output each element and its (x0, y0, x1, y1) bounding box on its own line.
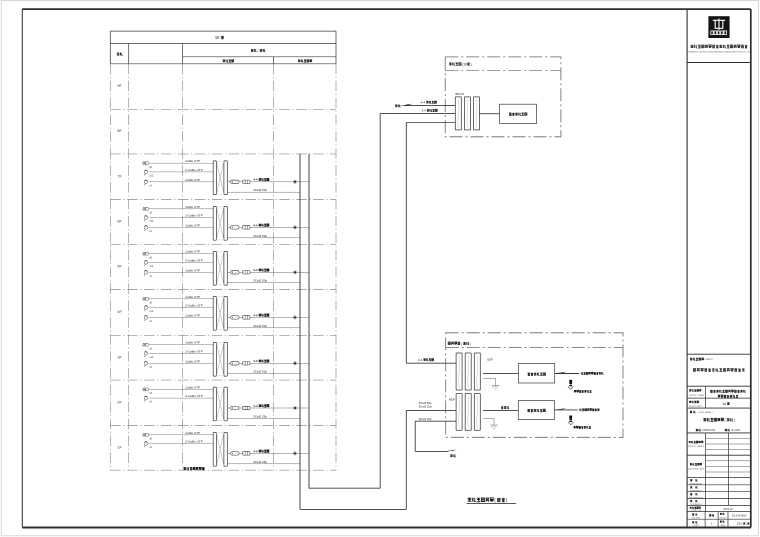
note 楼层弱电配线箱 (1F) (184, 467, 205, 470)
svg-text:2-Cat6e UTP: 2-Cat6e UTP (185, 258, 203, 262)
svg-text:2-Cat6e UTP: 2-Cat6e UTP (185, 440, 203, 444)
node: fiber junction dot 4F (294, 316, 296, 318)
wire 7F horizontal line 1 (149, 162, 214, 164)
fiber splice 4F (231, 316, 239, 320)
svg-text:EXAMINED BY: EXAMINED BY (690, 489, 702, 492)
sub project row (689, 401, 698, 403)
floor distributor FD 4F (213, 297, 216, 331)
svg-text:Cat6e UTP: Cat6e UTP (185, 385, 200, 389)
svg-text:4-4: 4-4 (253, 268, 258, 272)
wire 3F fiber uplink (227, 362, 230, 364)
node: fiber junction dot 7F (294, 181, 296, 183)
wire 4F horizontal line 2 (149, 307, 214, 309)
svg-text:): ) (470, 342, 471, 346)
main distribution frame MDF (456, 394, 462, 431)
svg-text:4-4: 4-4 (253, 313, 258, 317)
wire 4F horizontal line 3 (149, 316, 214, 318)
svg-text:ODF: ODF (487, 357, 493, 361)
wire BD to device (479, 113, 500, 115)
fiber termination 6F (243, 226, 250, 229)
floor 4F: outlets (143, 297, 149, 300)
wire 5F fiber uplink (227, 271, 230, 273)
wire 3F horizontal line 1 (149, 344, 214, 346)
dashed box: telecom room (top) (445, 57, 561, 137)
svg-text:Cat6e UTP: Cat6e UTP (185, 313, 200, 317)
header 干线子系统 (298, 60, 312, 63)
wire 2F fiber uplink (227, 407, 230, 409)
wire: up to MDF input (405, 411, 407, 510)
signature rows (705, 433, 707, 506)
svg-text:1#: 1# (215, 35, 220, 40)
svg-text:SCALE: SCALE (693, 524, 699, 527)
svg-text:( client ): ( client ) (705, 358, 714, 361)
entrance interface device (data) (519, 363, 555, 383)
wire 2F horizontal line 2 (149, 397, 214, 399)
entrance interface device (voice) (518, 401, 554, 420)
node: fiber junction dot 5F (294, 271, 296, 273)
header 楼层 (117, 53, 123, 56)
drawing frame (22, 8, 751, 10)
wire: riser up to equipment room (fiber) (379, 114, 381, 489)
wire: backbone1 bottom run (300, 508, 406, 510)
node: fiber junction dot 6F (294, 226, 296, 228)
svg-text:Cat6e UTP: Cat6e UTP (185, 223, 200, 227)
fiber termination 1F (243, 452, 250, 455)
wire: top room down to ODF (fiber) (405, 123, 407, 364)
wire 6F horizontal line 3 (149, 226, 214, 228)
svg-text:Cat6e UTP: Cat6e UTP (185, 268, 200, 272)
svg-text:3F: 3F (117, 355, 122, 359)
wire 2F voice trunk (227, 417, 300, 419)
svg-text:7F: 7F (117, 174, 122, 178)
svg-text:3Cat3 25p: 3Cat3 25p (419, 405, 432, 409)
building distributor BD rack (455, 97, 461, 130)
wire 1F horizontal line 2 (149, 443, 214, 445)
svg-text:DESIGNED BY: DESIGNED BY (690, 504, 702, 506)
svg-text:Cat6e UTP: Cat6e UTP (185, 359, 200, 363)
label 电信机房(1#楼) (449, 62, 461, 65)
floor distributor FD 6F (213, 207, 216, 241)
fiber splice 7F (231, 180, 239, 184)
svg-text:3Cat3 25p: 3Cat3 25p (419, 417, 432, 421)
svg-text:2F: 2F (117, 400, 122, 404)
riser backbone 1 (voice trunks) (299, 154, 301, 510)
svg-text:x12: x12 (149, 310, 154, 313)
wire 6F fiber uplink (227, 226, 230, 228)
label 预留 (reserved) (450, 454, 456, 457)
svg-text:4-4: 4-4 (253, 223, 258, 227)
floor 5F: outlets (143, 252, 149, 255)
node: fiber junction dot 1F (294, 452, 296, 454)
svg-text:PROOFREAD BY: PROOFREAD BY (689, 496, 703, 499)
svg-text:No.0158: No.0158 (731, 430, 740, 432)
label 预留 (395, 104, 400, 107)
svg-text:2-Cat6e UTP: 2-Cat6e UTP (185, 304, 203, 308)
wire device to municipal phone (555, 409, 578, 411)
wire 6F voice trunk (227, 237, 300, 239)
svg-text:2-Cat6e UTP: 2-Cat6e UTP (185, 214, 203, 218)
floor 2F: outlets (143, 388, 149, 391)
floor distributor FD 1F (213, 433, 216, 467)
drawing title 综合布线系统图(外网) (468, 498, 494, 502)
svg-text:DISCIPLINE CHIEF: DISCIPLINE CHIEF (688, 468, 705, 470)
svg-text:4-4: 4-4 (253, 359, 258, 363)
svg-text:3Cat3 50p: 3Cat3 50p (253, 188, 267, 192)
project name row (704, 386, 706, 408)
wire device to municipal fiber (555, 373, 579, 375)
client row (690, 358, 704, 361)
fiber termination 3F (243, 362, 250, 365)
svg-text:x12: x12 (149, 265, 154, 268)
wire 5F horizontal line 3 (149, 271, 214, 273)
wire 5F horizontal line 2 (149, 261, 214, 263)
floor 6F: outlets (143, 207, 149, 210)
label 进线机房(首层) (448, 342, 460, 345)
label 两根由市政光缆引入 (581, 372, 604, 374)
wire: BD down-feed line 3 (406, 122, 455, 124)
wire MDF through to device (483, 409, 518, 411)
fiber termination 4F (243, 316, 250, 319)
svg-text:3-4: 3-4 (422, 109, 427, 113)
svg-text:CHINA ELECTRONICS ENGINEERING: CHINA ELECTRONICS ENGINEERING DESIGN INS… (688, 51, 751, 54)
header 数据/语音点 (251, 49, 257, 52)
svg-text:Cat6e UTP: Cat6e UTP (185, 431, 200, 435)
wire 7F horizontal line 3 (149, 181, 214, 183)
svg-text:DR. TYPE: DR. TYPE (692, 517, 701, 519)
svg-text:3Cat3 25p: 3Cat3 25p (253, 414, 267, 418)
svg-text:x12: x12 (149, 220, 154, 223)
optical distribution frame ODF (456, 353, 462, 390)
svg-text:8F: 8F (117, 129, 122, 133)
svg-text:2-Cat6e UTP: 2-Cat6e UTP (185, 349, 203, 353)
floor 7F: outlets (143, 162, 149, 165)
dwg name row (690, 411, 695, 413)
svg-text:): ) (734, 418, 735, 422)
company name (691, 45, 748, 48)
svg-text:2023: 2023 (737, 523, 743, 525)
wire: incoming municipal fiber (top) (404, 105, 455, 107)
wire 7F fiber uplink (227, 181, 230, 183)
svg-text:(1#: (1# (462, 63, 467, 67)
fiber termination 2F (243, 406, 250, 409)
dashed box: cable entrance room (ground floor) (446, 333, 623, 438)
svg-text:6F: 6F (117, 220, 122, 224)
wire ODF to interface device (483, 373, 518, 375)
wire 3F horizontal line 2 (149, 352, 214, 354)
wire 1F fiber uplink (227, 452, 230, 454)
svg-text:2023-12: 2023-12 (723, 507, 733, 511)
node: fiber junction dot 3F (294, 362, 296, 364)
table column lines (109, 64, 111, 470)
svg-text:E2.0-W-ZM02: E2.0-W-ZM02 (732, 516, 747, 518)
svg-text:Cat6e UTP: Cat6e UTP (185, 178, 200, 182)
wire 2F horizontal line 1 (149, 388, 214, 390)
down symbol + 至市政信息外网 (568, 380, 573, 389)
table: building 1 riser schedule (110, 30, 336, 32)
svg-text:3-4: 3-4 (418, 358, 423, 362)
wire 3F voice trunk (227, 373, 300, 375)
table row separators (110, 108, 336, 110)
svg-text:DWG No.: DWG No. (719, 517, 727, 519)
fiber termination 5F (243, 271, 250, 274)
network device box (500, 104, 537, 123)
svg-text:Cat6e UTP: Cat6e UTP (185, 205, 200, 209)
svg-text:2-Cat6e UTP: 2-Cat6e UTP (185, 168, 203, 172)
label 市政电话电缆引入 (579, 409, 599, 411)
svg-text:Cat6e UTP: Cat6e UTP (185, 250, 200, 254)
header 配线区 (223, 60, 234, 63)
svg-text:MDF: MDF (449, 398, 455, 402)
label 大对数电缆 (501, 406, 509, 409)
svg-text:x12: x12 (149, 356, 154, 359)
svg-text:9F: 9F (117, 84, 122, 88)
wire 4F voice trunk (227, 327, 300, 329)
svg-text:4-4: 4-4 (253, 178, 258, 182)
svg-text:Cat6e UTP: Cat6e UTP (185, 159, 200, 163)
svg-text:): ) (471, 63, 472, 67)
wire 1F horizontal line 1 (149, 434, 214, 436)
svg-text:PROJECT NAME: PROJECT NAME (689, 394, 705, 397)
down symbol + 至市政电话外网 (568, 416, 573, 425)
floor 1F: outlets (143, 433, 149, 436)
svg-text:BD/CD: BD/CD (456, 92, 464, 96)
svg-text:4-4: 4-4 (421, 100, 426, 104)
wire 1F voice trunk (227, 463, 300, 465)
svg-text:4-4: 4-4 (253, 404, 258, 408)
company logo (708, 16, 729, 38)
wire 6F horizontal line 1 (149, 208, 214, 210)
svg-text:5F: 5F (117, 265, 122, 269)
floor distributor FD 7F (213, 161, 216, 195)
svg-text:2-Cat6e UTP: 2-Cat6e UTP (185, 394, 203, 398)
ground (ODF) (483, 377, 495, 379)
fiber splice 3F (231, 362, 239, 366)
svg-text:x12: x12 (149, 175, 154, 178)
wire 4F fiber uplink (227, 316, 230, 318)
fiber termination 7F (243, 180, 250, 183)
svg-text:1F: 1F (117, 445, 122, 449)
wire: backbone2 bottom run to riser up (309, 487, 380, 489)
floor distributor FD 5F (213, 251, 216, 285)
svg-text:3Cat3 50p: 3Cat3 50p (253, 279, 267, 283)
svg-text:4-4: 4-4 (253, 449, 258, 453)
wire 7F voice trunk (227, 191, 300, 193)
svg-text:3Cat3 25p: 3Cat3 25p (253, 460, 267, 464)
floor 3F: outlets (143, 343, 149, 346)
wire: reserved trunk into MDF line2 (415, 420, 456, 422)
svg-text:3Cat3 50p: 3Cat3 50p (253, 370, 267, 374)
fiber splice 6F (231, 226, 239, 230)
svg-text:/: / (257, 49, 258, 53)
svg-text:( DWG NAME ): ( DWG NAME ) (698, 411, 713, 414)
wire 5F horizontal line 1 (149, 253, 214, 255)
svg-text:3Cat3 50p: 3Cat3 50p (253, 234, 267, 238)
svg-text:1#: 1# (722, 402, 726, 406)
wire 7F horizontal line 2 (149, 171, 214, 173)
title block (686, 9, 688, 527)
svg-text:4F: 4F (117, 310, 122, 314)
ground (MDF) (483, 417, 494, 419)
wire 4F horizontal line 1 (149, 298, 214, 300)
svg-text:SUB PROJECT: SUB PROJECT (689, 406, 703, 408)
node: fiber junction dot 2F (294, 407, 296, 409)
svg-text:Cat6e UTP: Cat6e UTP (185, 295, 200, 299)
fiber splice 5F (231, 271, 239, 275)
stamp row (705, 505, 707, 511)
svg-text:A165001234: A165001234 (702, 429, 716, 432)
floor distributor FD 2F (213, 387, 216, 421)
svg-text:3Cat3 50p: 3Cat3 50p (253, 324, 267, 328)
wire 3F horizontal line 3 (149, 362, 214, 364)
riser backbone 2 (fiber) (308, 154, 310, 488)
floor distributor FD 3F (213, 342, 216, 376)
fiber splice 1F (231, 452, 239, 456)
wire 6F horizontal line 2 (149, 217, 214, 219)
svg-text:APPROVED BY: APPROVED BY (690, 482, 703, 485)
type / number row (704, 512, 706, 528)
fiber splice 2F (231, 406, 239, 410)
svg-text:Cat6e UTP: Cat6e UTP (185, 341, 200, 345)
wire: riser fiber into BD (380, 113, 455, 115)
wire 5F voice trunk (227, 282, 300, 284)
svg-text:PROJECT LEADER: PROJECT LEADER (688, 445, 705, 448)
